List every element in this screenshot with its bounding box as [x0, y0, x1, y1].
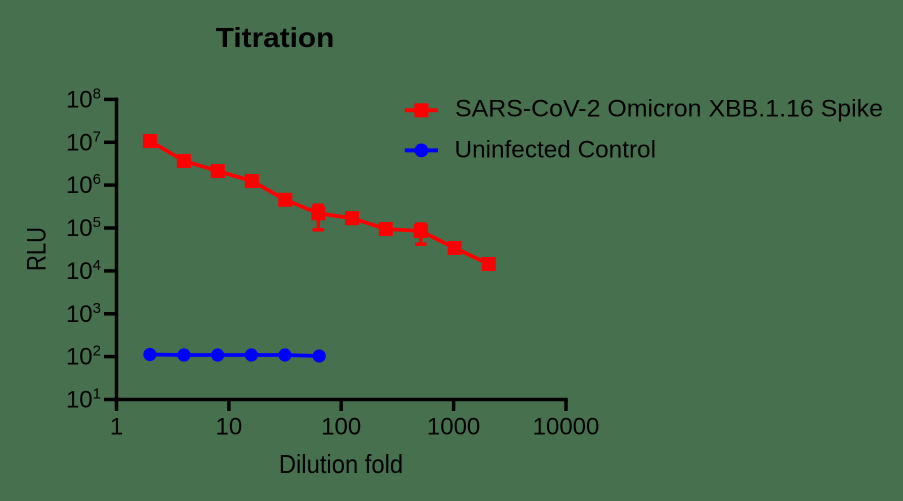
svg-text:SARS-CoV-2 Omicron XBB.1.16 Sp: SARS-CoV-2 Omicron XBB.1.16 Spike [455, 96, 883, 123]
svg-text:Dilution fold: Dilution fold [279, 449, 403, 479]
svg-text:Titration: Titration [216, 22, 335, 53]
svg-text:10000: 10000 [533, 414, 600, 441]
svg-text:Uninfected Control: Uninfected Control [455, 137, 657, 164]
svg-text:RLU: RLU [21, 227, 51, 271]
svg-text:1: 1 [110, 414, 123, 441]
svg-text:1000: 1000 [427, 414, 480, 441]
svg-text:100: 100 [321, 414, 361, 441]
svg-text:10: 10 [216, 414, 243, 441]
